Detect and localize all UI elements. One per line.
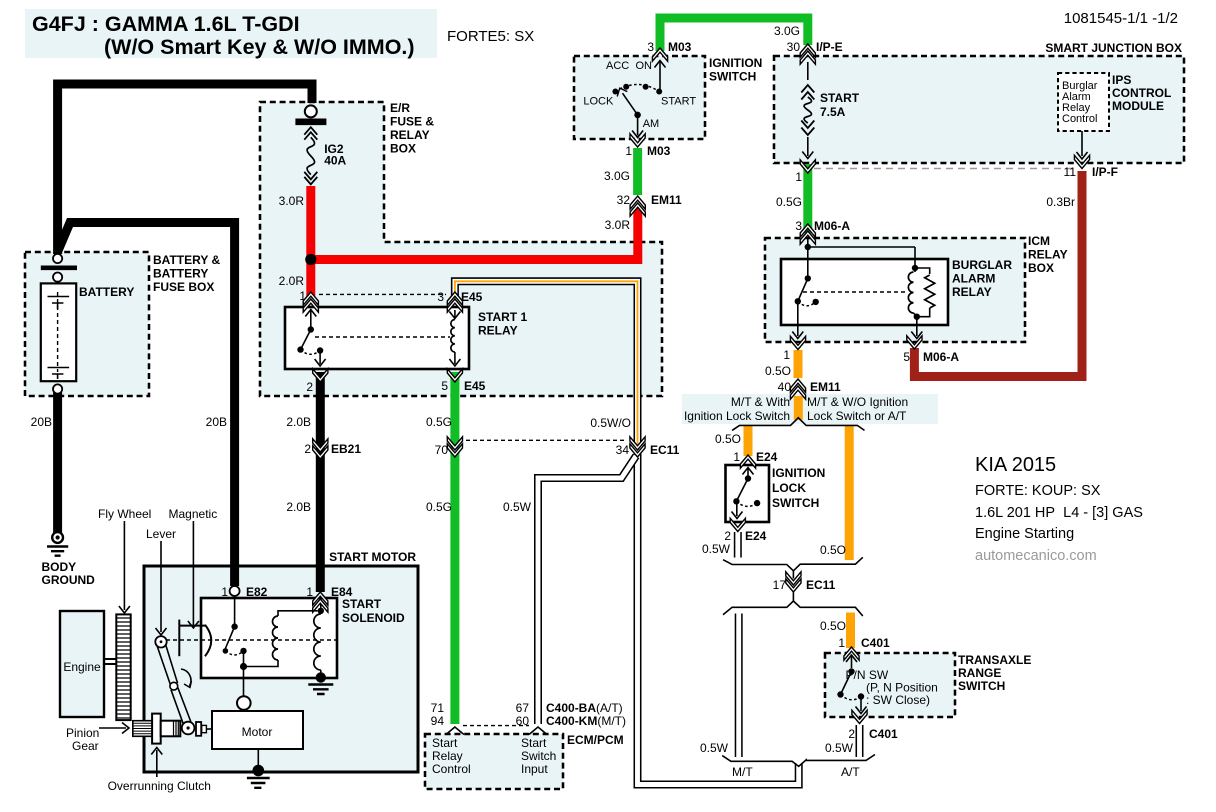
split brace below EM11-40 (732, 418, 864, 431)
svg-text:CONTROL: CONTROL (1112, 86, 1171, 100)
fly wheel (116, 614, 130, 720)
svg-text:I/P-F: I/P-F (1092, 165, 1118, 179)
connector E45-2 pin2 (313, 369, 328, 382)
ignition switch moving contact arm (634, 112, 641, 119)
svg-text:1: 1 (733, 450, 740, 464)
svg-text:M06-A: M06-A (923, 350, 959, 364)
svg-text:1.6L 201 HP L4 - [3] GAS: 1.6L 201 HP L4 - [3] GAS (975, 505, 1143, 521)
svg-text:0.5W: 0.5W (825, 741, 854, 755)
ICM relay box (765, 238, 1025, 342)
svg-text:M03: M03 (668, 40, 692, 54)
connector SJB-1 (800, 160, 815, 173)
svg-text:: SW Close): : SW Close) (866, 693, 930, 707)
svg-text:40: 40 (778, 380, 792, 394)
svg-text:0.5W: 0.5W (700, 741, 729, 755)
motor box (212, 711, 303, 749)
svg-text:ACC: ACC (606, 60, 629, 72)
overrunning clutch body (152, 714, 161, 744)
ignition switch box (574, 56, 705, 139)
battery & battery fuse box (25, 252, 149, 396)
svg-text:E/R: E/R (390, 101, 410, 115)
IPS control arrow to I/P-F (1081, 131, 1083, 156)
ignition lock switch contacts (747, 469, 749, 477)
ignition lock switch box (726, 465, 770, 522)
svg-text:5: 5 (441, 379, 448, 393)
C400 connector dashed link (463, 725, 529, 727)
wire 0.5O burglar relay pin1 to EM11-40 (794, 350, 803, 378)
ignition switch rotary contacts (615, 85, 659, 92)
svg-text:0.5W: 0.5W (503, 500, 532, 514)
svg-text:BURGLAR: BURGLAR (952, 258, 1012, 272)
svg-text:(W/O Smart Key & W/O IMMO.): (W/O Smart Key & W/O IMMO.) (104, 35, 415, 59)
svg-text:automecanico.com: automecanico.com (975, 548, 1097, 564)
svg-text:START MOTOR: START MOTOR (329, 550, 416, 564)
svg-text:0.5O: 0.5O (715, 432, 741, 446)
plunger fork (178, 620, 180, 657)
wire 0.3Br I/P-F to M06-A-5 (914, 171, 1082, 377)
svg-text:START 1: START 1 (478, 310, 527, 324)
connector C401-2 (852, 710, 867, 723)
svg-text:EC11: EC11 (806, 578, 836, 592)
svg-text:Input: Input (521, 762, 548, 776)
svg-text:MODULE: MODULE (1112, 99, 1164, 113)
svg-text:1: 1 (783, 348, 790, 362)
wire 0.5G SJB to M06-A-3 (803, 164, 812, 233)
svg-text:C401: C401 (861, 636, 890, 650)
wire 0.5O split to EC11-17 merge (845, 426, 854, 561)
svg-text:Fly Wheel: Fly Wheel (98, 507, 151, 521)
svg-text:M/T & With: M/T & With (731, 395, 790, 409)
svg-text:IPS: IPS (1112, 73, 1131, 87)
svg-text:70: 70 (435, 443, 449, 457)
svg-text:Relay: Relay (432, 749, 463, 763)
wire 2.0B relay pin2 to E84 (316, 372, 325, 592)
body ground symbol (52, 532, 63, 543)
svg-text:M06-A: M06-A (814, 219, 850, 233)
svg-text:M03: M03 (647, 144, 671, 158)
wire 0.5W/O E45-3 to EC11-34 (455, 281, 638, 446)
svg-text:SWITCH: SWITCH (709, 70, 756, 84)
svg-text:BATTERY: BATTERY (79, 285, 134, 299)
wire 0.5G EC11-70 to ECM pin71/94 (450, 452, 459, 724)
ignition switch line to pin 3 (659, 62, 661, 92)
svg-text:BODY: BODY (42, 560, 77, 574)
svg-text:E45: E45 (464, 379, 486, 393)
svg-text:SWITCH: SWITCH (958, 679, 1005, 693)
svg-text:Control: Control (1062, 113, 1097, 125)
svg-text:TRANSAXLE: TRANSAXLE (958, 653, 1031, 667)
svg-text:1081545-1/1 -1/2: 1081545-1/1 -1/2 (1064, 10, 1178, 27)
svg-text:2: 2 (724, 529, 731, 543)
svg-text:20B: 20B (206, 415, 227, 429)
connector EB21-2 (313, 446, 328, 459)
connector M03-3 (652, 48, 667, 61)
svg-text:Pinion: Pinion (66, 726, 99, 740)
E/R fuse & relay box (260, 102, 662, 396)
svg-text:FUSE &: FUSE & (390, 115, 434, 129)
lever (157, 644, 177, 686)
svg-text:FUSE BOX: FUSE BOX (153, 280, 214, 294)
split below EC11-17 (723, 593, 793, 615)
E45 connector dashed link (319, 293, 446, 295)
svg-text:0.3Br: 0.3Br (1046, 195, 1075, 209)
pinion gear (133, 721, 153, 737)
ECM connector carets (446, 727, 464, 735)
svg-text:BOX: BOX (1028, 261, 1054, 275)
svg-text:BATTERY &: BATTERY & (153, 253, 220, 267)
svg-text:2: 2 (306, 380, 313, 394)
svg-text:LOCK: LOCK (772, 481, 806, 495)
wire 20B battery to body ground (53, 392, 62, 533)
svg-text:LOCK: LOCK (583, 96, 614, 108)
svg-text:1: 1 (221, 585, 228, 599)
title backdrop (25, 9, 437, 58)
svg-text:SWITCH: SWITCH (772, 496, 819, 510)
smart junction box (774, 56, 1184, 163)
connector M06-A-3 (800, 224, 815, 237)
battery positive terminal connectors (53, 254, 62, 263)
junction node 2.0R (305, 254, 316, 265)
connector burglar pin1 (790, 336, 805, 349)
svg-text:17: 17 (773, 578, 787, 592)
bottom merge of M/T and A/T paths (722, 755, 875, 767)
svg-text:E24: E24 (745, 529, 767, 543)
svg-text:Ignition Lock Switch: Ignition Lock Switch (684, 409, 790, 423)
svg-text:A/T: A/T (841, 765, 860, 779)
start 1 relay coil (454, 310, 456, 317)
wire 0.5G E45-5 to EC11-70 (450, 372, 459, 449)
svg-text:EB21: EB21 (331, 442, 361, 456)
svg-text:32: 32 (617, 193, 631, 207)
svg-text:5: 5 (903, 350, 910, 364)
connector E24-2 (730, 518, 745, 531)
connector M06-A-5 (907, 336, 922, 349)
svg-text:Control: Control (432, 762, 471, 776)
svg-text:34: 34 (616, 443, 630, 457)
connector EM11-40 (790, 379, 805, 392)
connector E24-1 (740, 455, 755, 468)
svg-text:EC11: EC11 (650, 443, 680, 457)
svg-text:BATTERY: BATTERY (153, 267, 208, 281)
transaxle switch contacts (851, 657, 853, 669)
svg-text:0.5G: 0.5G (426, 500, 452, 514)
svg-text:G4FJ : GAMMA 1.6L T-GDI: G4FJ : GAMMA 1.6L T-GDI (32, 12, 300, 36)
wire 0.5W EC11-17 to M/T merge (735, 614, 743, 758)
svg-text:I/P-E: I/P-E (816, 40, 843, 54)
start solenoid box (201, 598, 337, 678)
svg-text:1: 1 (625, 144, 632, 158)
svg-text:71: 71 (431, 701, 445, 715)
wire 0.5W C401-2 to A/T merge (856, 725, 864, 757)
svg-text:2: 2 (304, 442, 311, 456)
svg-text:C400-KM(M/T): C400-KM(M/T) (546, 714, 626, 728)
ignition switch line to pin 1 AM (637, 117, 639, 136)
wire 20B battery to start motor E82 (58, 223, 235, 587)
fusible link IG2 40A (305, 105, 317, 117)
svg-text:E84: E84 (331, 585, 353, 599)
svg-text:Lock Switch or A/T: Lock Switch or A/T (807, 409, 907, 423)
ECM/PCM box (425, 734, 563, 789)
svg-text:E82: E82 (246, 585, 268, 599)
svg-text:RANGE: RANGE (958, 666, 1001, 680)
wire 3.0R EM11-32 to junction (311, 207, 638, 260)
wire 0.5O EC11-17 to C401-1 (846, 613, 855, 649)
connector M03-1 (630, 134, 645, 147)
svg-text:2.0R: 2.0R (279, 274, 305, 288)
svg-text:ECM/PCM: ECM/PCM (567, 733, 624, 747)
svg-text:FORTE: KOUP: SX: FORTE: KOUP: SX (975, 483, 1101, 499)
svg-text:SOLENOID: SOLENOID (342, 611, 405, 625)
svg-text:IGNITION: IGNITION (709, 56, 762, 70)
connector E45-5 (447, 369, 462, 382)
svg-text:IGNITION: IGNITION (772, 466, 825, 480)
svg-text:Switch: Switch (521, 749, 556, 763)
IPS control module box (1058, 73, 1109, 131)
svg-text:0.5G: 0.5G (426, 415, 452, 429)
start motor box (144, 566, 418, 772)
svg-text:START: START (342, 597, 382, 611)
svg-text:0.5O: 0.5O (765, 364, 791, 378)
svg-text:ON: ON (636, 60, 653, 72)
connector E82 circle (230, 586, 240, 596)
svg-text:RELAY: RELAY (952, 285, 992, 299)
svg-text:START: START (820, 91, 860, 105)
lever rotation arrow (181, 669, 191, 686)
svg-text:EM11: EM11 (651, 193, 682, 207)
wire 0.5W branch EC11-34 to ECM C400 (538, 456, 636, 724)
connector EC11-34 (630, 444, 645, 457)
branch condition text backdrop (682, 394, 938, 424)
svg-text:3.0R: 3.0R (279, 194, 305, 208)
svg-text:7.5A: 7.5A (820, 105, 846, 119)
wire 0.5O EM11-40 to split (794, 396, 803, 420)
svg-text:Lever: Lever (146, 527, 176, 541)
connector EC11-70 (447, 444, 462, 457)
svg-text:FORTE5: SX: FORTE5: SX (447, 28, 534, 45)
svg-text:ALARM: ALARM (952, 272, 995, 286)
svg-text:Motor: Motor (242, 725, 273, 739)
svg-text:3.0G: 3.0G (774, 24, 800, 38)
svg-text:3.0G: 3.0G (604, 169, 630, 183)
svg-text:M/T & W/O Ignition: M/T & W/O Ignition (807, 395, 908, 409)
solenoid switch (234, 596, 236, 624)
svg-text:1: 1 (795, 170, 802, 184)
connector I/P-E-30 (800, 44, 815, 57)
svg-text:0.5W: 0.5W (702, 542, 731, 556)
svg-text:Engine Starting: Engine Starting (975, 526, 1074, 542)
connector EC11-17 (786, 579, 801, 592)
svg-text:2: 2 (848, 727, 855, 741)
svg-text:Gear: Gear (72, 739, 99, 753)
shaft collar (196, 722, 201, 736)
battery symbol (41, 283, 76, 381)
wire 0.5W EC11-34 long run to bottom merge (638, 453, 799, 785)
svg-text:20B: 20B (31, 415, 52, 429)
svg-text:GROUND: GROUND (42, 573, 96, 587)
svg-text:30: 30 (787, 40, 801, 54)
svg-text:M/T: M/T (732, 765, 753, 779)
svg-text:67: 67 (516, 701, 530, 715)
svg-text:0.5O: 0.5O (820, 619, 846, 633)
svg-text:Start: Start (521, 736, 547, 750)
svg-text:11: 11 (1064, 165, 1077, 179)
svg-text:C401: C401 (869, 727, 898, 741)
burglar relay coil and resistor (912, 265, 918, 271)
svg-text:RELAY: RELAY (1028, 248, 1068, 262)
svg-text:E24: E24 (756, 450, 778, 464)
svg-text:2.0B: 2.0B (286, 500, 311, 514)
engine box (60, 611, 104, 717)
svg-text:0.5G: 0.5G (776, 195, 802, 209)
svg-text:2.0B: 2.0B (286, 415, 311, 429)
svg-text:0.5W/O: 0.5W/O (590, 416, 631, 430)
connector E45-3 (447, 292, 462, 305)
svg-text:Engine: Engine (63, 660, 101, 674)
wire 3.0G M03-1 to EM11-32 (633, 148, 642, 195)
svg-text:3: 3 (647, 40, 654, 54)
svg-text:KIA 2015: KIA 2015 (975, 454, 1056, 476)
start 1 relay switch (310, 310, 312, 327)
svg-text:SMART JUNCTION BOX: SMART JUNCTION BOX (1045, 41, 1182, 55)
svg-text:0.5O: 0.5O (820, 543, 846, 557)
svg-text:40A: 40A (324, 154, 346, 168)
solenoid pull-in winding (320, 604, 322, 614)
engine to flywheel shaft (104, 659, 117, 664)
svg-text:Overrunning Clutch: Overrunning Clutch (108, 779, 211, 793)
solenoid hold-in coil (244, 660, 279, 667)
svg-text:EM11: EM11 (810, 380, 841, 394)
burglar relay switch (807, 247, 809, 278)
EC11 connector dashed link (459, 439, 627, 441)
svg-text:1: 1 (306, 585, 313, 599)
svg-text:START: START (661, 96, 696, 108)
svg-text:Magnetic: Magnetic (169, 507, 218, 521)
svg-text:BOX: BOX (390, 142, 416, 156)
svg-text:C400-BA(A/T): C400-BA(A/T) (546, 701, 623, 715)
svg-text:ICM: ICM (1028, 234, 1050, 248)
svg-text:3: 3 (437, 290, 444, 304)
fuse START 7.5A (807, 62, 809, 80)
svg-text:RELAY: RELAY (478, 324, 518, 338)
wire 0.5W E24-2 to EC11-17 merge (734, 532, 742, 558)
wire 3.0R IG2 fuse to relay pin1 (306, 186, 315, 296)
start 1 relay mechanical link (315, 336, 450, 338)
svg-text:E45: E45 (461, 290, 483, 304)
connector E84-1 (313, 592, 328, 605)
solenoid mechanical dashed link (166, 639, 336, 641)
connector E45-1 (303, 292, 318, 305)
wire 0.5O split to E24-1 (744, 426, 753, 457)
svg-text:Start: Start (432, 736, 458, 750)
svg-text:1: 1 (838, 636, 845, 650)
connector C401-1 (844, 647, 859, 660)
merge into EC11-17 (723, 560, 793, 571)
svg-text:94: 94 (431, 714, 445, 728)
battery negative terminal connector (53, 384, 62, 393)
svg-text:RELAY: RELAY (390, 128, 430, 142)
svg-text:3.0R: 3.0R (605, 218, 631, 232)
transaxle range switch box (825, 653, 955, 717)
solenoid ground (316, 672, 326, 682)
motor feed line and connector (243, 667, 245, 697)
burglar relay mechanical link (803, 291, 908, 293)
wire 3.0G ignition switch to I/P-E (660, 18, 808, 51)
burglar alarm relay box (781, 259, 948, 325)
wire 20B battery to E/R fuse box (58, 84, 312, 254)
burglar relay feed line (807, 237, 809, 247)
connector I/P-F-11 (1074, 155, 1089, 168)
svg-text:AM: AM (643, 118, 660, 130)
I/P connector dashed link (814, 168, 1074, 170)
motor ground (257, 749, 259, 768)
start 1 relay box (285, 307, 469, 369)
connector EM11-32 (630, 196, 645, 209)
